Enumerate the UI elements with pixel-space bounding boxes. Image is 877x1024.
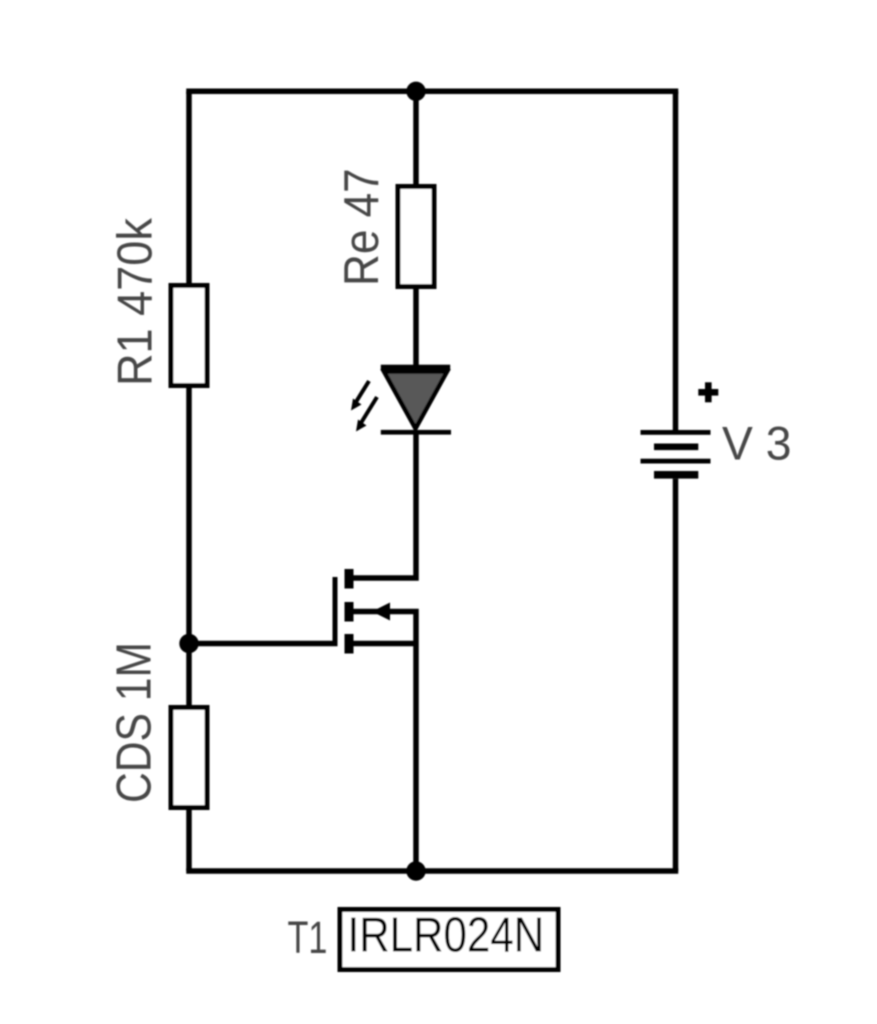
wire: top rail from left branch to battery: [189, 89, 676, 95]
svg-text:CDS 1M: CDS 1M: [106, 642, 161, 803]
LED D1 light arrow 2: [356, 397, 377, 432]
node: gate junction dot: [179, 634, 198, 653]
wire: left branch lower (CDS to bottom rail): [186, 808, 192, 872]
resistor CDS body: [171, 708, 207, 808]
LED D1 triangle: [384, 372, 447, 429]
battery V3 plate 3 long: [641, 459, 711, 464]
transistor T1 source lead: [354, 641, 417, 647]
wire: middle branch top (top rail to Re): [413, 91, 419, 187]
wire: gate wire from junction to T1: [189, 641, 338, 647]
wire: LED cathode to MOSFET drain: [354, 434, 417, 578]
wire: left branch middle (R1 to CDS): [186, 386, 192, 709]
resistor Re body: [398, 187, 434, 287]
transistor T1 channel bar drain: [345, 569, 354, 589]
LED D1 light arrow 1: [351, 381, 369, 411]
svg-text:IRLR024N: IRLR024N: [347, 908, 544, 963]
transistor T1 channel bar body: [345, 602, 354, 622]
battery V3 plate 1 long: [641, 430, 711, 435]
transistor T1 body diode arrow: [372, 603, 390, 621]
wire: left branch upper (top rail to R1): [186, 91, 192, 286]
resistor R1 body: [171, 286, 207, 386]
svg-text:T1: T1: [288, 913, 328, 963]
LED D1 anode bar: [381, 365, 450, 371]
svg-text:V 3: V 3: [722, 417, 791, 469]
battery V3 plus sign: [698, 382, 718, 402]
battery V3 plate 4 short: [654, 471, 698, 479]
node: bottom junction dot: [406, 861, 425, 880]
wire: middle branch (Re to LED anode): [413, 287, 419, 367]
transistor T1 body lead with substrate connection: [354, 612, 417, 644]
transistor T1 channel bar source: [345, 634, 354, 654]
wire: battery top (top rail to V3): [673, 91, 679, 430]
node: top junction dot: [406, 82, 425, 101]
part number box: [340, 910, 558, 970]
transistor T1 gate lead vertical: [333, 577, 338, 646]
svg-text:Re 47: Re 47: [334, 168, 389, 286]
svg-text:R1 470k: R1 470k: [107, 218, 162, 386]
wire: source to bottom rail: [413, 644, 419, 872]
wire: bottom rail: [189, 868, 676, 874]
LED D1 cathode bar: [381, 430, 451, 435]
battery V3 plate 2 short: [654, 444, 698, 451]
wire: battery bottom (V3 to bottom rail): [673, 479, 679, 871]
